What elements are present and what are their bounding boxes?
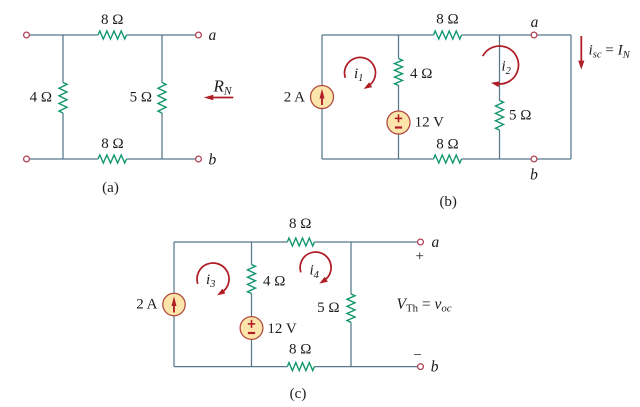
- terminal a of (a): [196, 32, 202, 38]
- svg-text:a: a: [209, 27, 217, 44]
- resistor 8ohm (b) bottom: [434, 155, 462, 163]
- svg-text:8 Ω: 8 Ω: [101, 12, 123, 28]
- svg-text:4 Ω: 4 Ω: [410, 66, 432, 82]
- terminal a of (c): [418, 239, 424, 245]
- svg-text:5 Ω: 5 Ω: [317, 300, 339, 316]
- wire: (a) bottom rail: [30, 158, 196, 160]
- svg-text:8 Ω: 8 Ω: [289, 341, 311, 357]
- terminal b of (c): [418, 364, 424, 370]
- mesh current i1 loop arrow: [345, 57, 376, 89]
- svg-text:2 A: 2 A: [136, 297, 157, 313]
- svg-text:2 A: 2 A: [284, 90, 305, 106]
- terminal a of (b): [531, 32, 537, 38]
- resistor 5ohm (a): [158, 83, 166, 114]
- wire: (c) top rail: [174, 241, 417, 243]
- svg-text:8 Ω: 8 Ω: [289, 216, 311, 232]
- wire: (a) top rail: [30, 34, 196, 36]
- current source 2A (c): [163, 293, 185, 315]
- resistor 8ohm (a) bottom: [98, 155, 127, 163]
- svg-text:12 V: 12 V: [415, 115, 444, 131]
- svg-text:b: b: [431, 358, 439, 375]
- svg-text:12 V: 12 V: [267, 321, 296, 337]
- svg-text:a: a: [531, 14, 539, 31]
- svg-text:8 Ω: 8 Ω: [436, 12, 458, 28]
- svg-text:(c): (c): [290, 386, 307, 402]
- svg-text:b: b: [530, 166, 538, 183]
- mesh current i4 loop arrow: [300, 252, 331, 284]
- resistor 4ohm (b): [395, 59, 403, 86]
- wire: (c) 5ohm branch: [350, 242, 352, 367]
- svg-text:5 Ω: 5 Ω: [509, 108, 531, 124]
- terminal b of (a): [196, 156, 202, 162]
- svg-text:5 Ω: 5 Ω: [130, 89, 152, 105]
- wire: (a) left branch: [62, 35, 64, 159]
- wire: (b) top rail: [322, 34, 571, 36]
- svg-text:b: b: [209, 152, 217, 169]
- current source 2A (b): [311, 86, 334, 109]
- wire: (c) left branch: [173, 242, 175, 367]
- svg-text:a: a: [432, 234, 440, 251]
- svg-text:4 Ω: 4 Ω: [30, 89, 52, 105]
- wire: (b) 5ohm branch: [499, 35, 501, 159]
- resistor 5ohm (b): [496, 101, 504, 131]
- svg-text:(b): (b): [439, 194, 457, 210]
- svg-text:8 Ω: 8 Ω: [436, 136, 458, 152]
- wire: (c) bottom rail: [174, 366, 417, 368]
- i_sc = I_N arrow: [578, 36, 584, 70]
- resistor 8ohm (c) bottom: [287, 363, 314, 371]
- resistor 5ohm (c): [347, 294, 355, 322]
- wire: (b) right edge: [570, 35, 572, 159]
- mesh current i3 loop arrow: [197, 263, 229, 295]
- svg-text:−: −: [413, 347, 421, 363]
- mesh current i2 loop arrow: [483, 46, 519, 87]
- terminal (a) top-left: [24, 32, 30, 38]
- resistor 8ohm (c) top: [287, 238, 314, 246]
- wire: (b) bottom rail: [322, 158, 571, 160]
- R_N label and arrow: [204, 76, 234, 100]
- terminal b of (b): [531, 156, 537, 162]
- svg-text:4 Ω: 4 Ω: [263, 273, 285, 289]
- wire: (b) left branch with 2A source: [321, 35, 323, 159]
- terminal (a) bottom-left: [24, 156, 30, 162]
- resistor 4ohm (a): [59, 83, 67, 114]
- voltage source 12V (c): [240, 317, 263, 340]
- wire: (c) middle branch: [251, 242, 253, 367]
- voltage source 12V (b): [387, 111, 410, 134]
- resistor 8ohm (a) top: [98, 31, 127, 39]
- resistor 8ohm (b) top: [434, 31, 462, 39]
- resistor 4ohm (c): [248, 265, 256, 294]
- svg-text:8 Ω: 8 Ω: [101, 136, 123, 152]
- svg-text:(a): (a): [102, 180, 119, 196]
- wire: (a) right branch: [161, 35, 163, 159]
- wire: (b) middle branch: [398, 35, 400, 159]
- svg-text:+: +: [415, 248, 423, 264]
